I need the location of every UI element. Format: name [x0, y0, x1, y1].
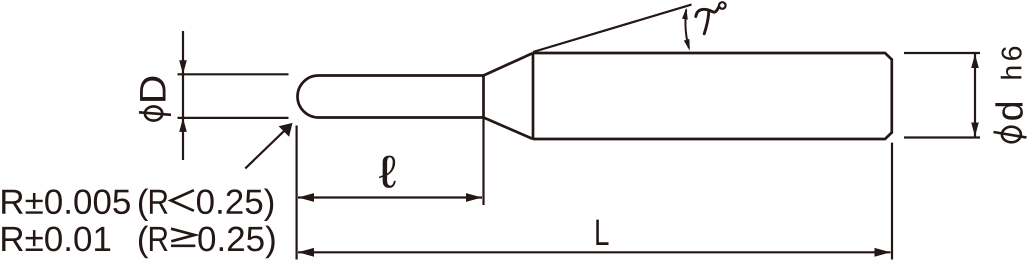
L dimension line	[298, 251, 891, 253]
l dimension right extension line	[482, 118, 484, 206]
L dimension right extension line	[891, 143, 893, 260]
L length label	[596, 220, 608, 245]
taper-shank junction vertical line	[532, 53, 535, 139]
phid label: d text	[995, 103, 1023, 120]
phid dimension arrow line	[974, 54, 976, 137]
phiD label: phi symbol	[139, 106, 171, 120]
l length label	[379, 156, 396, 188]
less-than symbol	[171, 190, 194, 211]
l dimension line	[298, 196, 482, 198]
taper top line	[484, 53, 534, 76]
R tolerance note line 2	[2, 227, 110, 252]
phiD top arrowhead	[179, 60, 187, 74]
taper bottom line	[484, 118, 534, 140]
phiD bottom arrowhead	[179, 118, 187, 132]
l right arrowhead	[466, 193, 482, 202]
leader arrowhead	[279, 123, 293, 137]
phiD dimension arrow line	[182, 31, 184, 160]
phiD bottom extension line	[178, 117, 289, 119]
l left arrowhead	[298, 193, 314, 202]
gamma angle slant line	[533, 5, 692, 52]
phid bottom extension line	[904, 136, 980, 138]
neck end vertical line	[482, 76, 485, 118]
gamma angle arc arrow	[685, 10, 688, 49]
L right arrowhead	[875, 248, 891, 257]
leader line to ball nose radius	[245, 127, 288, 168]
phid label: phi symbol	[994, 127, 1027, 143]
phid top extension line	[904, 52, 980, 54]
phid bottom arrowhead	[971, 123, 979, 137]
degree symbol	[719, 2, 726, 9]
l dimension left extension line	[296, 126, 298, 260]
shank outline with chamfered right end	[533, 53, 892, 139]
ball nose and neck outline	[298, 76, 484, 118]
phiD label: D text	[140, 77, 165, 101]
R tolerance note line 1	[2, 189, 130, 214]
L left arrowhead	[298, 248, 314, 257]
phiD top extension line	[178, 73, 289, 75]
phid top arrowhead	[971, 54, 979, 68]
h6 tolerance label	[1001, 47, 1022, 79]
gamma label	[696, 7, 719, 34]
greater-or-equal JIS symbol	[171, 229, 195, 242]
